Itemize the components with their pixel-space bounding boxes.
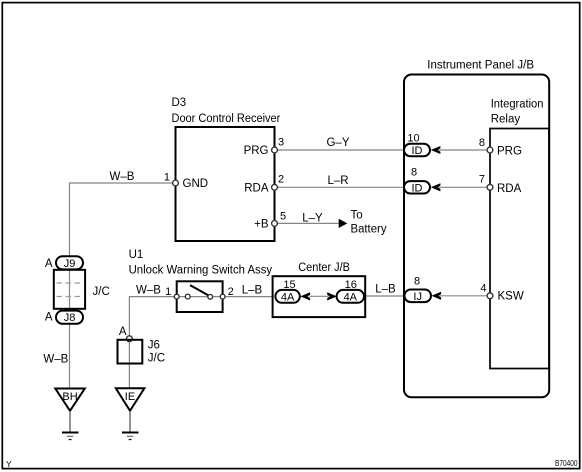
svg-text:IE: IE bbox=[125, 391, 135, 403]
component Center J/B box bbox=[273, 276, 366, 317]
svg-text:A: A bbox=[119, 326, 127, 338]
svg-text:W–B: W–B bbox=[136, 285, 161, 297]
svg-text:IJ: IJ bbox=[413, 291, 422, 303]
svg-text:RDA: RDA bbox=[244, 182, 269, 194]
svg-text:1: 1 bbox=[165, 286, 171, 298]
junction block J/C rect (J9/J8) bbox=[54, 270, 85, 309]
svg-text:+B: +B bbox=[254, 218, 269, 230]
wire from IJ arrow to relay pin 4 KSW bbox=[440, 295, 488, 297]
svg-text:A: A bbox=[45, 258, 53, 270]
connector ID (pin 8) oval bbox=[404, 181, 430, 193]
svg-text:ID: ID bbox=[412, 145, 423, 157]
svg-text:J8: J8 bbox=[64, 312, 76, 324]
svg-text:Battery: Battery bbox=[351, 224, 387, 236]
svg-text:L–B: L–B bbox=[375, 284, 396, 296]
arrow to battery bbox=[339, 219, 348, 228]
svg-text:2: 2 bbox=[278, 174, 284, 186]
svg-text:A: A bbox=[45, 312, 53, 324]
pin 2 RDA circle bbox=[272, 184, 278, 190]
wire G-Y from D3 PRG to ID connector bbox=[277, 149, 404, 151]
connector 4A (pin 15) oval bbox=[275, 290, 299, 303]
pin 4 KSW circle (relay) bbox=[487, 293, 493, 299]
pin 7 RDA circle (relay) bbox=[487, 184, 493, 190]
wire through switch U1 bbox=[177, 296, 223, 298]
svg-text:GND: GND bbox=[183, 178, 209, 190]
connector 4A (pin 16) oval bbox=[337, 290, 364, 303]
svg-text:KSW: KSW bbox=[498, 291, 524, 303]
svg-text:J/C: J/C bbox=[148, 353, 165, 365]
wire BH triangle to ground bbox=[69, 411, 71, 432]
svg-text:1: 1 bbox=[164, 172, 170, 184]
svg-text:W–B: W–B bbox=[110, 171, 135, 183]
svg-text:BH: BH bbox=[62, 391, 77, 403]
svg-text:PRG: PRG bbox=[497, 146, 522, 158]
component Integration Relay box bbox=[490, 129, 549, 369]
svg-text:W–B: W–B bbox=[43, 354, 68, 366]
svg-text:J9: J9 bbox=[64, 258, 76, 270]
component U1 Unlock Warning Switch Assy box bbox=[177, 281, 223, 312]
svg-text:L–B: L–B bbox=[242, 285, 263, 297]
pin 3 PRG circle bbox=[272, 147, 278, 153]
svg-text:4: 4 bbox=[480, 283, 486, 295]
svg-text:B70400: B70400 bbox=[555, 459, 578, 468]
wire IE triangle to ground bbox=[129, 411, 131, 432]
component Instrument Panel J/B box bbox=[404, 75, 549, 398]
wire L-B from switch pin 2 to Center J/B bbox=[223, 296, 273, 298]
dashed line 1 inside J/C bbox=[57, 282, 83, 284]
svg-text:7: 7 bbox=[479, 174, 485, 186]
svg-text:U1: U1 bbox=[129, 249, 144, 261]
svg-text:Unlock Warning Switch Assy: Unlock Warning Switch Assy bbox=[129, 265, 273, 277]
wire W-B from corner to switch pin 1, and down to J6 / IE ground bbox=[129, 297, 176, 389]
arrow into ID (pin 8) bbox=[431, 183, 441, 191]
svg-text:5: 5 bbox=[280, 211, 286, 223]
arrow into 4A pin 15 bbox=[300, 292, 310, 300]
wire W-B from D3 GND to BH ground (horizontal + vertical) bbox=[70, 183, 173, 389]
wire from ID arrow to relay pin 7 RDA bbox=[439, 186, 488, 188]
wire L-B from Center J/B to IJ connector bbox=[366, 295, 406, 297]
svg-text:Center J/B: Center J/B bbox=[298, 262, 350, 274]
ground triangle IE bbox=[116, 388, 145, 411]
svg-text:10: 10 bbox=[407, 133, 419, 145]
component D3 Door Control Receiver box bbox=[176, 127, 275, 241]
svg-text:D3: D3 bbox=[172, 97, 187, 109]
switch inner contact circle (right) bbox=[208, 294, 213, 299]
svg-text:8: 8 bbox=[479, 137, 485, 149]
ground triangle BH bbox=[55, 389, 85, 411]
svg-text:ID: ID bbox=[412, 183, 423, 195]
component J6 J/C junction bbox=[126, 336, 132, 342]
pin 5 +B circle bbox=[272, 221, 278, 227]
svg-text:4A: 4A bbox=[344, 292, 358, 304]
J6 box bbox=[118, 340, 143, 364]
switch pin 2 circle bbox=[220, 294, 225, 299]
ground symbol BH bbox=[62, 432, 79, 434]
pin 8 PRG circle (relay) bbox=[487, 147, 493, 153]
ground symbol IE bbox=[122, 432, 139, 434]
svg-text:RDA: RDA bbox=[497, 183, 522, 195]
svg-text:G–Y: G–Y bbox=[326, 137, 349, 149]
svg-text:4A: 4A bbox=[281, 292, 295, 304]
svg-text:Door Control Receiver: Door Control Receiver bbox=[172, 113, 281, 125]
wire between 4A arrows bbox=[310, 295, 329, 297]
connector ID (pin 10) oval bbox=[404, 144, 430, 156]
svg-text:Integration: Integration bbox=[491, 99, 544, 111]
switch lever bbox=[190, 285, 208, 295]
svg-text:3: 3 bbox=[278, 137, 284, 149]
svg-text:Y: Y bbox=[6, 459, 12, 469]
switch pin 1 circle bbox=[174, 294, 179, 299]
connector J8 oval bbox=[56, 311, 83, 324]
wire L-R from D3 RDA to ID connector bbox=[277, 186, 404, 188]
wire L-Y from D3 +B to battery bbox=[277, 222, 340, 224]
svg-text:2: 2 bbox=[228, 286, 234, 298]
svg-text:To: To bbox=[351, 210, 363, 222]
svg-text:8: 8 bbox=[411, 167, 417, 179]
switch inner contact circle (left) bbox=[185, 294, 190, 299]
svg-text:L–R: L–R bbox=[327, 175, 348, 187]
connector J9 oval bbox=[56, 256, 83, 269]
svg-text:J/C: J/C bbox=[93, 286, 110, 298]
connector IJ (pin 8) oval bbox=[405, 290, 432, 303]
svg-text:L–Y: L–Y bbox=[302, 213, 323, 225]
arrow into ID (pin 10) bbox=[431, 146, 441, 154]
arrow into IJ bbox=[432, 292, 442, 300]
svg-text:15: 15 bbox=[283, 279, 295, 291]
svg-text:16: 16 bbox=[345, 279, 357, 291]
arrow into 4A pin 16 bbox=[327, 292, 337, 300]
svg-text:J6: J6 bbox=[148, 340, 160, 352]
svg-text:Relay: Relay bbox=[491, 114, 521, 126]
dashed line 2 inside J/C bbox=[57, 296, 83, 298]
wire from ID arrow to relay pin 8 PRG bbox=[439, 149, 488, 151]
svg-text:8: 8 bbox=[414, 276, 420, 288]
pin 1 GND circle bbox=[173, 180, 179, 186]
svg-text:Instrument Panel J/B: Instrument Panel J/B bbox=[427, 60, 534, 72]
svg-text:PRG: PRG bbox=[244, 145, 269, 157]
